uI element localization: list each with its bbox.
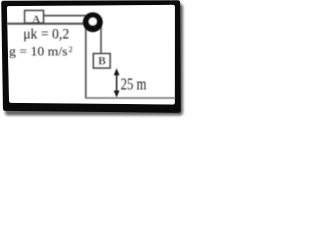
height dimension arrow (double-headed) [114, 68, 120, 97]
label g = 10 m/s [9, 43, 68, 58]
svg-text:2: 2 [69, 45, 73, 54]
table surface line [7, 23, 84, 25]
svg-text:g = 10 m/s: g = 10 m/s [9, 43, 68, 58]
svg-text:A: A [32, 13, 40, 25]
outer border frame (slightly keystoned black band) [1, 0, 181, 113]
rope from pulley down to block B [100, 24, 102, 54]
table leg (vertical edge under pulley) [85, 24, 87, 98]
superscript 2 of m/s2 [69, 45, 73, 54]
block B [93, 54, 110, 68]
pulley [83, 12, 103, 32]
label uk = 0,2 [23, 27, 69, 43]
floor line [85, 97, 175, 99]
svg-text:25 m: 25 m [121, 75, 147, 94]
label 25 m [121, 75, 147, 94]
frame drop shadow [5, 4, 183, 116]
svg-text:μk = 0,2: μk = 0,2 [23, 27, 69, 43]
rope from block A to pulley [44, 15, 87, 17]
block A [25, 11, 44, 26]
svg-text:B: B [98, 56, 106, 68]
